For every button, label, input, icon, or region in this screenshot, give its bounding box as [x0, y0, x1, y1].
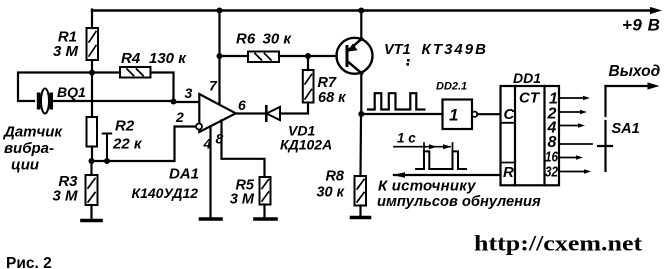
resistor R5: [260, 177, 271, 205]
svg-text:DA1: DA1: [169, 166, 199, 183]
svg-text:7: 7: [209, 78, 218, 94]
wire R8 top lead: [359, 114, 362, 176]
wire BQ1 right to pin3 node: [53, 100, 174, 102]
diode VD1: [266, 106, 280, 120]
wire output stub 2: [559, 111, 581, 113]
logic gate DD2.1: [443, 100, 473, 130]
wire emitter to rail: [360, 11, 362, 40]
wire R3 bottom lead: [90, 205, 92, 219]
svg-text:Рис. 2: Рис. 2: [6, 255, 52, 269]
svg-text:Выход: Выход: [609, 63, 661, 80]
svg-text:VT1: VT1: [384, 42, 411, 58]
svg-text:130 к: 130 к: [149, 50, 187, 67]
svg-text:R6: R6: [236, 31, 256, 48]
emitter arrow of VT1: [348, 44, 358, 52]
svg-text:C: C: [504, 106, 516, 123]
svg-text:КД102А: КД102А: [280, 137, 332, 153]
svg-text:вибра-: вибра-: [4, 140, 54, 157]
wire R6 right to base: [279, 55, 347, 57]
ground R5: [255, 217, 276, 221]
switch SA1: [598, 86, 612, 171]
svg-text:R: R: [503, 164, 514, 181]
node rail/pin7: [217, 8, 223, 14]
svg-text:30 к: 30 к: [316, 185, 344, 201]
node R2/R3 junction: [89, 158, 95, 164]
svg-text:2: 2: [175, 109, 184, 125]
wire R4 left lead: [92, 71, 120, 73]
node emitter/rail: [358, 8, 364, 14]
svg-text:R4: R4: [121, 50, 141, 67]
svg-text:R7: R7: [318, 75, 337, 91]
resistor R4: [120, 67, 151, 78]
wire BQ1 left loop: [18, 73, 92, 102]
wire R3 top lead: [90, 161, 92, 175]
svg-text:1 с: 1 с: [397, 131, 416, 146]
wire R7 top lead: [307, 56, 309, 70]
node stub junction: [104, 158, 110, 164]
1c timing diagram: [394, 143, 466, 169]
svg-text:КТ349В: КТ349В: [422, 41, 488, 58]
wire R4 right lead down to pin3: [151, 73, 174, 102]
wire output corner: [606, 85, 652, 87]
arrowhead Выход: [648, 82, 660, 89]
svg-text:32: 32: [545, 164, 559, 181]
svg-text:3 М: 3 М: [230, 192, 255, 208]
arrowhead reset wire left: [392, 172, 405, 178]
svg-text:DD1: DD1: [513, 70, 541, 86]
svg-text:R2: R2: [115, 118, 135, 135]
wire node X down to R2: [91, 73, 93, 118]
stub with bar near R2: [103, 134, 112, 162]
wire R5 bottom lead: [263, 205, 265, 219]
svg-text:Датчик: Датчик: [2, 124, 63, 141]
node R6 tap: [217, 53, 223, 59]
node collector/R8/DD2 junction: [358, 111, 364, 117]
svg-text:6: 6: [238, 97, 246, 113]
wire pin 7 up to rail: [218, 11, 220, 105]
wire feedback run to pin 2: [92, 127, 197, 162]
wire R1 bottom lead: [91, 60, 93, 73]
svg-text:3 М: 3 М: [52, 188, 78, 205]
wire +9V top rail: [92, 9, 655, 11]
wire to op-amp pin 3: [174, 101, 200, 103]
wire R2 bottom lead: [91, 147, 93, 162]
wire reset input to R: [394, 174, 501, 176]
svg-text:R8: R8: [325, 169, 344, 185]
wire collector node to DD2.1: [361, 113, 442, 115]
ground pin 4: [201, 217, 222, 221]
resistor R2: [87, 117, 98, 147]
wire R7 bottom lead: [280, 103, 309, 114]
svg-text:3: 3: [185, 85, 193, 101]
wire output stub 4: [559, 125, 579, 127]
svg-text:68 к: 68 к: [318, 90, 346, 106]
wire R1 top lead: [91, 10, 93, 29]
wire output stub 8: [559, 143, 592, 145]
svg-text:SA1: SA1: [612, 121, 640, 137]
svg-text:импульсов обнуления: импульсов обнуления: [377, 194, 541, 210]
wire output stub 1: [559, 97, 584, 99]
svg-text:http://cxem.net: http://cxem.net: [474, 232, 642, 256]
op-amp DA1: [199, 94, 235, 132]
wire DD2.1 to DD1 C: [477, 113, 500, 115]
svg-text:22 к: 22 к: [112, 136, 143, 153]
artifact mark under VT1: [407, 59, 410, 62]
svg-text:30 к: 30 к: [263, 31, 293, 48]
piezo sensor BQ1: [37, 89, 53, 114]
resistor R3: [86, 175, 98, 205]
wire output stub 16: [559, 157, 577, 159]
wire pin 8 to R5: [222, 121, 265, 178]
svg-text:1: 1: [449, 106, 458, 125]
wire pin 4 to ground: [209, 126, 211, 218]
resistor R6: [248, 52, 279, 63]
svg-text:BQ1: BQ1: [57, 84, 86, 100]
wire R6 left lead: [220, 55, 249, 57]
node pin3 junction: [171, 99, 177, 105]
wire output stub 32: [559, 171, 585, 173]
svg-text:3 М: 3 М: [53, 43, 79, 60]
wire collector down: [360, 73, 362, 115]
wire op-amp output to diode: [236, 112, 267, 114]
svg-text:К140УД12: К140УД12: [132, 185, 199, 201]
svg-text:CT: CT: [519, 90, 541, 107]
dimension arrows 1c: [429, 144, 437, 149]
svg-text:К источнику: К источнику: [378, 178, 476, 195]
resistor R7: [303, 70, 314, 103]
wire R8 bottom lead: [359, 206, 361, 217]
pulse train symbol: [368, 93, 424, 109]
svg-text:+9 В: +9 В: [622, 16, 660, 35]
ground R3: [82, 219, 101, 223]
arrowhead of +9V rail: [650, 7, 662, 14]
resistor R8: [355, 176, 367, 206]
resistor R1: [87, 28, 99, 60]
node junction R1/R4/BQ1 loop: [89, 70, 95, 76]
counter DD1: [501, 86, 560, 185]
ground R8: [352, 216, 370, 220]
svg-text:DD2.1: DD2.1: [436, 81, 467, 93]
transistor VT1: [337, 38, 373, 74]
pin 2 inversion circle: [196, 124, 202, 130]
svg-text:ции: ции: [11, 157, 39, 174]
node R7 tap: [305, 53, 311, 59]
DD2.1 output bubble: [472, 112, 477, 117]
